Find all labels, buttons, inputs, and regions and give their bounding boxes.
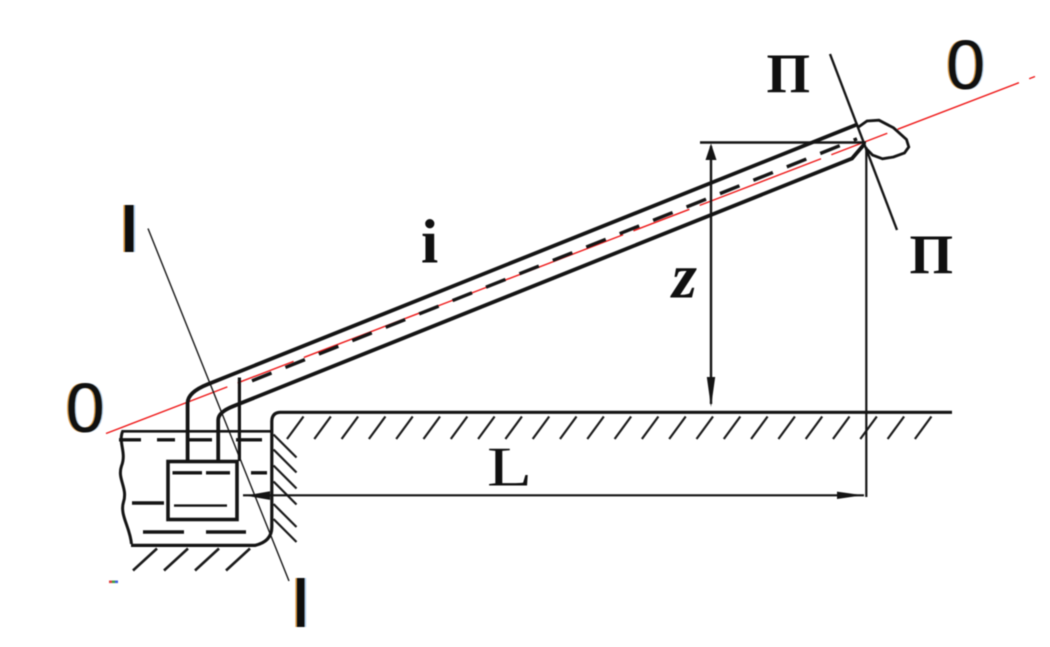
ground top line with corner, bank wall and reservoir bottom [131,412,952,545]
section line П-П [830,54,897,230]
svg-text:0: 0 [946,26,985,104]
L dimension line [243,494,864,496]
svg-text:П: П [910,225,954,287]
label L [487,437,532,498]
bank wall hatching [274,435,297,543]
ground hatching (top surface) [287,417,931,440]
L arrow right [837,492,863,499]
axis 0-0 red dashed line [106,77,1035,434]
water dash row 3 [132,501,164,504]
z arrow up [706,144,717,161]
left bank wavy edge [120,431,131,545]
svg-text:L: L [487,437,532,498]
water dashes row 2 [173,471,268,474]
suction pipe right wall [238,378,241,462]
water dashes row 4 [143,530,246,533]
svg-text:z: z [670,241,697,312]
water dashes row 1 [119,438,262,441]
svg-text:П: П [767,44,811,106]
pipe lower wall (with bend) [218,144,864,460]
section line I-I [148,229,289,582]
water line inside box [174,504,227,506]
extension line below nozzle [865,147,867,497]
label I top (bar with colour fringe) [123,205,125,252]
water surface line [122,430,271,433]
svg-text:0: 0 [66,369,105,447]
z arrow down [707,377,715,407]
z dimension top horizontal line [700,141,866,143]
z dimension vertical line [710,146,712,404]
colour artifact [109,581,112,584]
L arrow left [246,491,271,500]
pipe upper wall (with bend to vertical suction pipe) [188,124,858,461]
nozzle at pipe outlet [859,120,909,159]
svg-text:i: i [421,209,438,277]
pipe axis dash line [252,139,857,381]
pump box [168,462,237,520]
label I bottom (bar with colour fringe) [295,578,297,627]
reservoir bottom hatching [133,549,250,571]
